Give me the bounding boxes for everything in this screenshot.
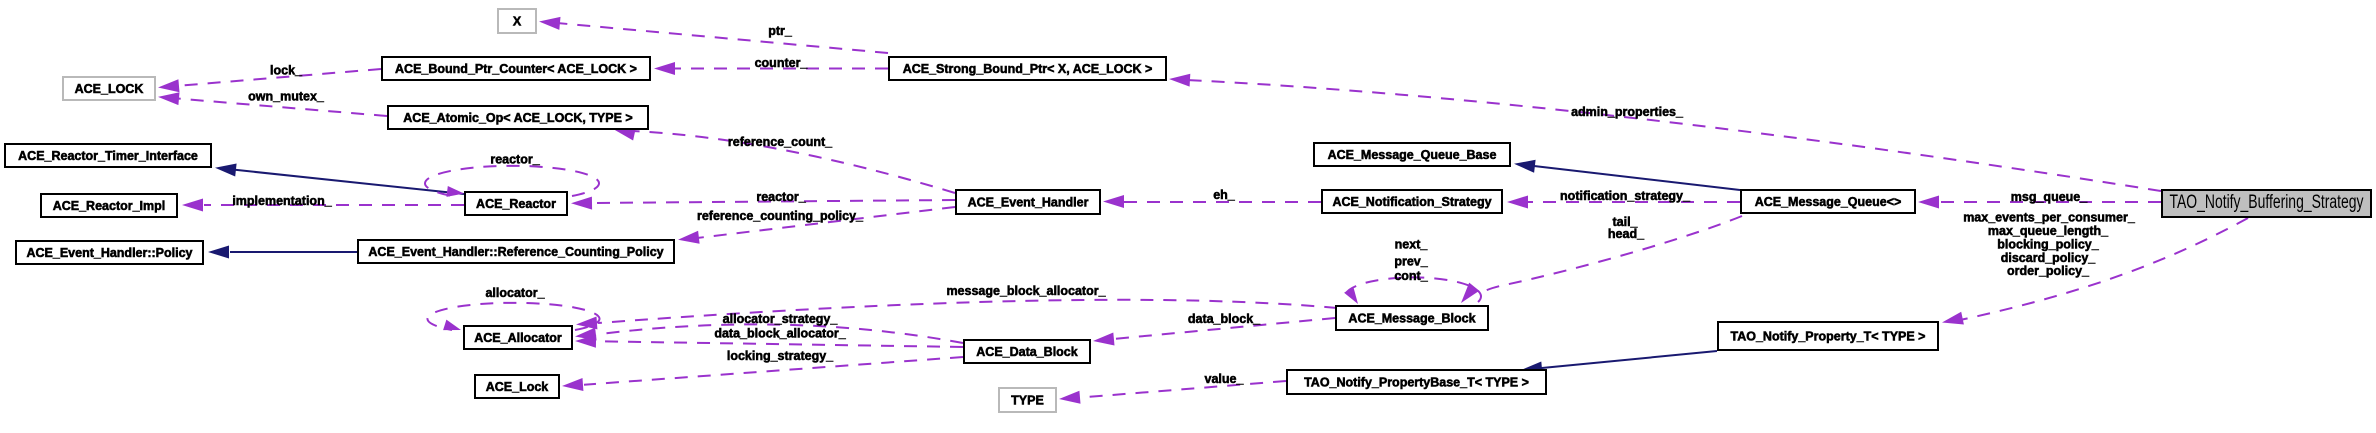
class box ACE_Reactor_Timer_Interface: [5, 144, 211, 167]
svg-text:eh_: eh_: [1213, 188, 1236, 202]
svg-text:TAO_Notify_Property_T< TYPE >: TAO_Notify_Property_T< TYPE >: [1731, 330, 1926, 344]
wire admin_properties_ : TAO_Notify_Buffering_Strategy -> ACE_Strong_Bound_Ptr: [1169, 74, 2161, 191]
svg-text:ACE_Allocator: ACE_Allocator: [474, 331, 562, 345]
svg-text:ACE_Reactor: ACE_Reactor: [476, 197, 556, 211]
svg-text:message_block_allocator_: message_block_allocator_: [946, 284, 1106, 298]
svg-text:TYPE: TYPE: [1011, 394, 1044, 408]
svg-text:blocking_policy_: blocking_policy_: [1997, 238, 2099, 252]
wire reference_count_ : ACE_Event_Handler -> ACE_Atomic_Op: [614, 128, 955, 193]
class box TAO_Notify_PropertyBase_T&lt; TYPE &gt;: [1287, 370, 1546, 394]
svg-text:data_block_allocator_: data_block_allocator_: [714, 327, 846, 341]
svg-text:ACE_Notification_Strategy: ACE_Notification_Strategy: [1332, 195, 1491, 209]
svg-text:ACE_Data_Block: ACE_Data_Block: [976, 345, 1077, 359]
svg-text:ACE_Event_Handler: ACE_Event_Handler: [968, 196, 1089, 210]
wire implementation_ : ACE_Reactor -> ACE_Reactor_Impl: [182, 199, 464, 212]
svg-text:max_queue_length_: max_queue_length_: [1988, 224, 2109, 238]
wire allocator_strategy_ : ACE_Data_Block -> ACE_Allocator: [575, 324, 963, 343]
wire tail_ head_ : ACE_Message_Queue -> ACE_Message_Block: [1461, 216, 1742, 303]
wire inheritance : ACE_Message_Queue -> ACE_Message_Queue_Base: [1514, 160, 1740, 190]
svg-text:order_policy_: order_policy_: [2007, 264, 2090, 278]
svg-text:data_block_: data_block_: [1188, 312, 1261, 326]
svg-text:ACE_Lock: ACE_Lock: [486, 380, 549, 394]
svg-text:msg_queue_: msg_queue_: [2011, 190, 2088, 204]
svg-text:ACE_Message_Queue<>: ACE_Message_Queue<>: [1755, 195, 1902, 209]
svg-text:allocator_: allocator_: [485, 286, 545, 300]
wire ptr_ : ACE_Strong_Bound_Ptr -> X: [539, 17, 888, 53]
svg-text:ACE_Message_Block: ACE_Message_Block: [1348, 312, 1475, 326]
wire own_mutex_ : ACE_Atomic_Op -> ACE_LOCK: [158, 92, 387, 116]
svg-text:reference_count_: reference_count_: [728, 135, 833, 149]
wire reactor_ : ACE_Event_Handler -> ACE_Reactor: [571, 197, 955, 210]
svg-text:max_events_per_consumer_: max_events_per_consumer_: [1963, 211, 2136, 225]
svg-text:ACE_Message_Queue_Base: ACE_Message_Queue_Base: [1328, 148, 1497, 162]
wire data_block_ : ACE_Message_Block -> ACE_Data_Block: [1093, 318, 1335, 346]
class box ACE_Reactor_Impl: [41, 194, 177, 217]
svg-text:prev_: prev_: [1394, 255, 1428, 269]
svg-text:ACE_Reactor_Timer_Interface: ACE_Reactor_Timer_Interface: [18, 149, 198, 163]
wire locking_strategy_ : ACE_Data_Block -> ACE_Lock: [562, 357, 963, 391]
class box TAO_Notify_Property_T&lt; TYPE &gt;: [1718, 322, 1938, 350]
wire data_block_allocator_ : ACE_Data_Block -> ACE_Allocator: [575, 335, 963, 348]
svg-text:notification_strategy_: notification_strategy_: [1560, 189, 1691, 203]
svg-text:reactor_: reactor_: [490, 153, 540, 167]
svg-text:TAO_Notify_Buffering_Strategy: TAO_Notify_Buffering_Strategy: [2170, 192, 2364, 213]
svg-text:allocator_strategy_: allocator_strategy_: [723, 312, 839, 326]
wire notification_strategy_ : ACE_Message_Queue -> ACE_Notification_Strategy: [1507, 196, 1740, 209]
svg-text:ACE_LOCK: ACE_LOCK: [75, 82, 144, 96]
wire counter_ : ACE_Strong_Bound_Ptr -> ACE_Bound_Ptr_Counter: [654, 62, 888, 75]
wire self-loop allocator_ : ACE_Allocator: [428, 303, 600, 330]
wire lock_ : ACE_Bound_Ptr_Counter -> ACE_LOCK: [158, 69, 381, 92]
class box ACE_Bound_Ptr_Counter&lt; ACE_LOCK &gt;: [382, 57, 650, 80]
wire inheritance : ACE_Reactor -> ACE_Reactor_Timer_Interface: [215, 164, 464, 195]
svg-text:ACE_Event_Handler::Policy: ACE_Event_Handler::Policy: [26, 246, 192, 260]
wire reference_counting_policy_ : ACE_Event_Handler -> ACE_Event_Handler::Reference_Counting_Policy: [678, 207, 955, 244]
class box ACE_Allocator: [464, 326, 572, 349]
class box TAO_Notify_Buffering_Strategy: [2162, 190, 2371, 217]
svg-text:ACE_Atomic_Op< ACE_LOCK, TYPE: ACE_Atomic_Op< ACE_LOCK, TYPE >: [403, 111, 632, 125]
wire inheritance : ACE_Event_Handler::Reference_Counting_Policy -> ACE_Event_Handler::Policy: [208, 246, 357, 259]
class box ACE_Lock: [475, 375, 559, 398]
class box ACE_Event_Handler::Policy: [16, 241, 203, 264]
svg-text:reactor_: reactor_: [756, 190, 806, 204]
svg-text:ACE_Bound_Ptr_Counter< ACE_LOC: ACE_Bound_Ptr_Counter< ACE_LOCK >: [395, 62, 637, 76]
svg-text:ptr_: ptr_: [768, 24, 793, 38]
svg-text:cont_: cont_: [1394, 269, 1428, 283]
wire self-loop next_ prev_ cont_ : ACE_Message_Block: [1344, 277, 1481, 304]
class box ACE_Reactor: [465, 192, 567, 215]
svg-text:value_: value_: [1205, 372, 1245, 386]
class box ACE_Message_Block: [1336, 306, 1488, 330]
class box ACE_Message_Queue&lt;&gt;: [1741, 190, 1915, 213]
wire value_ : TAO_Notify_PropertyBase_T -> TYPE: [1059, 381, 1286, 404]
wire msg_queue_ : TAO_Notify_Buffering_Strategy -> ACE_Message_Queue: [1918, 196, 2161, 209]
wire self-loop reactor_ : ACE_Reactor: [425, 166, 599, 197]
svg-text:ACE_Strong_Bound_Ptr< X, ACE_L: ACE_Strong_Bound_Ptr< X, ACE_LOCK >: [903, 62, 1153, 76]
svg-text:reference_counting_policy_: reference_counting_policy_: [697, 209, 864, 223]
class box ACE_Event_Handler::Reference_Counting_Policy: [358, 240, 674, 263]
wire max_events_per_consumer_ etc : TAO_Notify_Buffering_Strategy -> TAO_Notify_Property_T: [1942, 218, 2248, 325]
wire eh_ : ACE_Notification_Strategy -> ACE_Event_Handler: [1103, 195, 1321, 208]
class box ACE_Data_Block: [964, 340, 1090, 363]
class box ACE_Atomic_Op&lt; ACE_LOCK, TYPE &gt;: [388, 106, 648, 129]
svg-text:head_: head_: [1608, 227, 1645, 241]
class box ACE_Strong_Bound_Ptr&lt; X, ACE_LOCK &gt;: [889, 57, 1166, 80]
svg-text:counter_: counter_: [755, 56, 809, 70]
svg-text:TAO_Notify_PropertyBase_T< TYP: TAO_Notify_PropertyBase_T< TYPE >: [1304, 376, 1529, 390]
class box ACE_Event_Handler: [956, 190, 1100, 214]
svg-text:lock_: lock_: [270, 64, 303, 78]
wire inheritance : TAO_Notify_Property_T -> TAO_Notify_PropertyBase_T: [1521, 351, 1717, 374]
svg-text:admin_properties_: admin_properties_: [1571, 105, 1684, 119]
class box ACE_Notification_Strategy: [1322, 190, 1502, 213]
class box X: [498, 9, 536, 33]
class box ACE_Message_Queue_Base: [1314, 143, 1510, 166]
svg-text:discard_policy_: discard_policy_: [2001, 251, 2097, 265]
svg-text:implementation_: implementation_: [232, 194, 332, 208]
svg-text:locking_strategy_: locking_strategy_: [727, 349, 834, 363]
svg-text:ACE_Event_Handler::Reference_C: ACE_Event_Handler::Reference_Counting_Po…: [368, 245, 663, 259]
svg-text:ACE_Reactor_Impl: ACE_Reactor_Impl: [53, 199, 166, 213]
svg-text:next_: next_: [1395, 238, 1429, 252]
class box TYPE: [999, 388, 1056, 412]
svg-text:X: X: [513, 15, 522, 29]
wire message_block_allocator_ : ACE_Message_Block -> ACE_Allocator: [576, 300, 1337, 330]
class box ACE_LOCK: [63, 77, 155, 100]
svg-text:own_mutex_: own_mutex_: [248, 90, 325, 104]
